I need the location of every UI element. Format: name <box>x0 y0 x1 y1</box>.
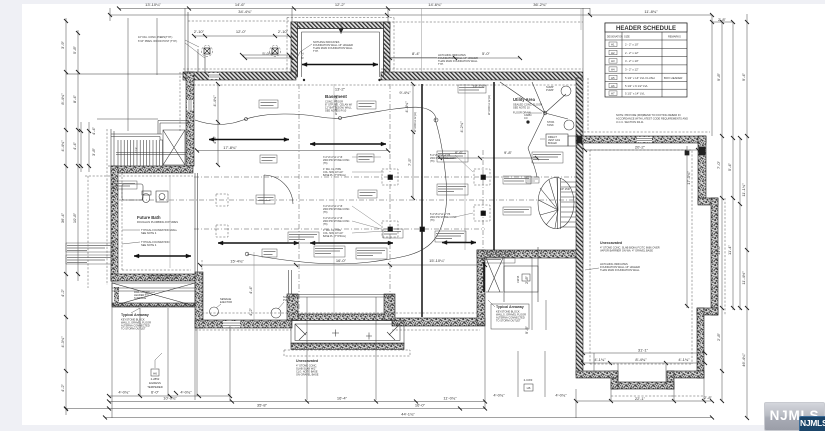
right dimension line mid2 <box>739 138 741 310</box>
interior dim vertical x254 <box>253 252 255 321</box>
wall: main top wall, right of bump <box>381 72 583 80</box>
leader: future bath notes <box>122 230 140 244</box>
beam line vertical x390 <box>389 84 391 317</box>
svg-text:THAN MAIN FOUNDATION WALL: THAN MAIN FOUNDATION WALL <box>438 59 478 63</box>
wall: step down from future bath <box>195 272 203 328</box>
wall: bay stub left <box>287 294 298 320</box>
right dimension line inner <box>721 22 723 401</box>
svg-text:4'-4": 4'-4" <box>72 141 77 150</box>
bump corner dots <box>303 79 305 81</box>
wavy service line <box>195 107 436 124</box>
porch post 2 <box>272 48 278 54</box>
svg-text:8'-4": 8'-4" <box>72 94 77 103</box>
svg-text:6'-0": 6'-0" <box>151 390 160 395</box>
svg-text:H6: H6 <box>153 372 157 376</box>
svg-text:H6: H6 <box>611 84 615 88</box>
right areaway X shape <box>486 258 503 292</box>
svg-text:10'-0¾": 10'-0¾" <box>163 396 177 401</box>
header schedule table <box>605 23 687 97</box>
interior vertical dim x530 <box>531 258 533 330</box>
svg-text:4'-4": 4'-4" <box>91 126 96 135</box>
svg-text:4'-1¾": 4'-1¾" <box>678 357 690 362</box>
top right short dim <box>712 21 733 23</box>
deck dashed outline top-right <box>388 21 583 23</box>
future bath interior dim line <box>169 175 171 268</box>
window extension lines below areaway <box>518 351 545 397</box>
svg-text:4'-2": 4'-2" <box>248 307 253 316</box>
svg-text:11'-0": 11'-0" <box>716 244 721 254</box>
left dimension line inner <box>77 30 79 281</box>
svg-text:4'-0¾": 4'-0¾" <box>118 390 130 395</box>
deck dashed outline top-left porch <box>188 20 289 22</box>
svg-text:7'-5": 7'-5" <box>407 157 412 166</box>
curved stair radials <box>539 178 559 228</box>
footing dashed inside right wing <box>590 150 692 364</box>
svg-text:5 1/2" x 14" LVL FLUSH: 5 1/2" x 14" LVL FLUSH <box>625 76 655 80</box>
carbon monoxide dot <box>527 121 530 124</box>
svg-text:36'-2¾": 36'-2¾" <box>533 2 547 7</box>
footing dashed below bottom wall <box>195 330 480 356</box>
svg-text:U.C.C. SECTION R4-11: U.C.C. SECTION R4-11 <box>616 120 644 124</box>
table header row <box>605 39 687 41</box>
wall: right wing right wall upper <box>698 136 706 204</box>
wall: right wing bottom right <box>667 371 704 378</box>
stair bay left thin wall <box>113 131 115 166</box>
svg-text:BOILER: BOILER <box>548 142 557 145</box>
boiler box <box>546 134 568 146</box>
svg-text:DESIGNATION: DESIGNATION <box>607 36 623 39</box>
sump pump circle <box>561 86 571 96</box>
bottom dim line 3 <box>105 417 712 419</box>
svg-text:(T6): (T6) <box>430 160 435 163</box>
bump second inner line <box>302 32 380 77</box>
svg-text:PUMP: PUMP <box>546 88 554 92</box>
svg-text:5 1/2" x 14" LVL: 5 1/2" x 14" LVL <box>625 92 645 96</box>
window gap in top wall <box>209 73 219 79</box>
wall: right wing step in <box>697 308 718 315</box>
leader: rail guard <box>145 292 155 294</box>
wall: main right wall shared with right wing <box>576 78 583 375</box>
svg-text:3 - 2" x 10": 3 - 2" x 10" <box>625 59 639 63</box>
stair bay top thin wall <box>111 129 163 166</box>
svg-text:14'-6¾": 14'-6¾" <box>428 2 442 7</box>
svg-text:9'-8": 9'-8" <box>716 72 721 81</box>
svg-text:5 1/2" x 9 1/2" LVL: 5 1/2" x 9 1/2" LVL <box>625 84 648 88</box>
svg-text:2-CW3: 2-CW3 <box>524 378 533 382</box>
svg-text:31'-1": 31'-1" <box>638 348 649 353</box>
column lines above bay stub <box>289 270 292 294</box>
interior dim vertical wing <box>686 146 688 308</box>
wall: bay window sill wall <box>292 314 392 321</box>
interior dim line wing bottom 2 <box>583 362 705 364</box>
svg-text:15'-10¼": 15'-10¼" <box>429 258 445 263</box>
svg-text:BOX HEADER: BOX HEADER <box>664 76 682 80</box>
svg-text:46'-4¼": 46'-4¼" <box>741 353 746 367</box>
svg-text:H3: H3 <box>611 59 615 63</box>
svg-text:CW15: CW15 <box>516 275 520 283</box>
top dimension line 1 <box>119 8 590 10</box>
interior dim line wing top <box>585 149 698 151</box>
svg-text:4'-0¾": 4'-0¾" <box>493 393 505 398</box>
bathtub <box>122 184 143 200</box>
bay window thin wall <box>292 295 392 298</box>
bottom extension lines <box>111 281 113 418</box>
page margin strips <box>0 0 22 431</box>
right areaway divider <box>503 258 505 302</box>
interior dim line y150 <box>197 150 388 152</box>
beam arrow A3 <box>134 255 191 257</box>
svg-text:15'-4¾": 15'-4¾" <box>230 259 244 264</box>
svg-text:10'-8": 10'-8" <box>72 212 77 223</box>
wavy line node circles <box>339 117 342 120</box>
svg-text:20'-2": 20'-2" <box>635 145 646 150</box>
svg-text:13'-2": 13'-2" <box>335 87 346 92</box>
wall: main bottom wall left segment <box>195 320 292 328</box>
svg-text:6'-6": 6'-6" <box>455 150 464 155</box>
wall: top stoop bump, top <box>291 22 390 29</box>
leader: hatch note top center <box>296 44 312 60</box>
svg-text:7'-0": 7'-0" <box>716 160 721 169</box>
toilet <box>142 194 150 203</box>
bottom dim line 1 <box>109 401 485 403</box>
svg-text:8'-4": 8'-4" <box>412 51 421 56</box>
svg-text:22'-1": 22'-1" <box>635 396 646 401</box>
svg-text:4'-4": 4'-4" <box>248 285 253 294</box>
beam arrow A6 <box>310 242 393 244</box>
leader: sewage ejector <box>216 302 284 309</box>
svg-text:2 - 2" x 12": 2 - 2" x 12" <box>625 51 639 55</box>
wall: bottom areaway hatched sill <box>291 343 404 350</box>
svg-text:4'-3¾": 4'-3¾" <box>60 336 65 348</box>
svg-text:(T6): (T6) <box>323 162 328 165</box>
svg-text:10" DIA. CONC. PIERS(TYP.): 10" DIA. CONC. PIERS(TYP.) <box>138 35 172 39</box>
svg-text:TO STORM OUTLET: TO STORM OUTLET <box>496 319 521 323</box>
wall: main left wall <box>186 72 194 166</box>
footing dashed outside left wall <box>107 72 180 285</box>
svg-text:6"x6" PRES. WOOD POST (TYP.): 6"x6" PRES. WOOD POST (TYP.) <box>138 39 177 43</box>
svg-text:2 - 2" x 10": 2 - 2" x 10" <box>625 43 639 47</box>
leader: areaway label left <box>131 308 140 313</box>
svg-text:13'-10¼": 13'-10¼" <box>145 2 161 7</box>
left dim extension x157 <box>156 18 158 75</box>
svg-text:THAN MAIN FOUNDATION WALL: THAN MAIN FOUNDATION WALL <box>600 268 640 272</box>
porch left edge line <box>187 12 189 74</box>
footing dashed outside right wing <box>576 132 725 396</box>
right areaway floor rect <box>504 266 538 292</box>
svg-text:THAN MAIN FOUNDATION WALL: THAN MAIN FOUNDATION WALL <box>313 46 353 50</box>
svg-text:4'-0¾": 4'-0¾" <box>180 390 192 395</box>
left wall top extension line <box>66 73 184 75</box>
svg-text:ROUGH-IN PLUMBING FIXTURES: ROUGH-IN PLUMBING FIXTURES <box>137 220 178 224</box>
svg-text:4'-4¾": 4'-4¾" <box>60 140 65 152</box>
wall: right edge of center bottom section <box>477 250 485 325</box>
footing dashed inside top wall <box>190 84 576 86</box>
svg-text:ACCORDANCE WITH LATEST CODE RE: ACCORDANCE WITH LATEST CODE REQUIREMENTS… <box>616 117 688 121</box>
wall: future bath left wall <box>111 166 118 281</box>
svg-text:(T6): (T6) <box>323 223 328 226</box>
footing dashed left of future bath <box>87 176 89 288</box>
right areaway right line <box>537 247 539 302</box>
wall: right wing bottom lower <box>611 382 674 389</box>
svg-text:2'-8": 2'-8" <box>716 332 721 341</box>
svg-text:16'-0": 16'-0" <box>336 258 347 263</box>
left areaway X brace <box>112 283 195 306</box>
big sweeping drain arc <box>247 119 447 264</box>
footing dashed below bay bottom wall <box>85 175 193 177</box>
svg-text:16'-0": 16'-0" <box>415 403 426 408</box>
porch dim line between posts <box>194 35 289 37</box>
right dimension line mid <box>732 138 734 310</box>
footing dashed outside bump <box>287 18 394 73</box>
sewage ejector circle <box>210 307 219 316</box>
interior vertical dim x546 <box>545 300 547 330</box>
left areaway rails <box>112 288 195 291</box>
svg-text:Unexcavated: Unexcavated <box>600 241 622 245</box>
svg-text:8'-4¾": 8'-4¾" <box>60 93 65 105</box>
dimension tick marks <box>117 7 390 11</box>
svg-text:9'-8": 9'-8" <box>504 150 513 155</box>
wall: bay stub right <box>384 294 395 320</box>
beam arrow A4 <box>442 242 476 244</box>
wall: right wing right wall middle <box>711 198 718 315</box>
leader: floor drain <box>528 112 542 114</box>
table title box <box>605 23 687 32</box>
svg-text:Unexcavated: Unexcavated <box>296 359 318 363</box>
svg-text:H7: H7 <box>611 92 615 96</box>
bottom areaway drain cross <box>332 330 372 340</box>
wall: main bottom wall right segment <box>392 318 485 326</box>
stair bay left extension lines <box>81 122 89 172</box>
bottom extension x176 <box>197 326 230 401</box>
porch post 1 <box>204 48 210 54</box>
beam line horizontal y200 <box>119 199 576 201</box>
svg-text:TYP.: TYP. <box>313 49 319 53</box>
svg-text:35'-8": 35'-8" <box>257 403 268 408</box>
leader: boiler <box>540 138 545 140</box>
svg-text:REMARKS: REMARKS <box>668 35 681 39</box>
future bath right partition <box>195 173 198 274</box>
leader: hatch note top right <box>390 57 437 59</box>
svg-text:12'-2": 12'-2" <box>335 2 346 7</box>
wing bottom extension lines <box>594 353 666 385</box>
stoop arrow <box>302 64 378 66</box>
svg-text:SURFACE: SURFACE <box>134 296 147 300</box>
svg-text:Typical Areaway: Typical Areaway <box>121 313 149 317</box>
svg-text:5'-0": 5'-0" <box>482 51 491 56</box>
leader: unexcavated wing hatch note <box>585 268 599 270</box>
wall: future bath bottom wall <box>111 274 202 281</box>
interior dim line bottom center <box>200 264 485 266</box>
svg-text:11'-8¾": 11'-8¾" <box>644 9 658 14</box>
wall: right wing bottom left <box>576 371 618 378</box>
wall: left areaway bottom hatched <box>112 303 195 307</box>
svg-text:SIZE: SIZE <box>624 35 630 39</box>
top dimension line 2 <box>110 14 712 16</box>
beam line horizontal y229 <box>194 228 485 230</box>
thin column line x334 <box>333 84 335 317</box>
svg-text:9'-8": 9'-8" <box>524 325 529 334</box>
curve in utility to stair <box>528 148 537 177</box>
svg-text:Typical Areaway: Typical Areaway <box>496 305 524 309</box>
future bath door swing <box>264 175 293 204</box>
svg-text:4'-2": 4'-2" <box>60 383 65 392</box>
svg-text:2'-10": 2'-10" <box>194 29 205 34</box>
interior dim line top <box>245 57 520 59</box>
wall: right wing bottom step left <box>611 371 618 389</box>
leader: egress <box>155 353 162 368</box>
beam arrow A2 <box>310 143 386 145</box>
top extension lines <box>109 8 111 21</box>
row designation boxes <box>609 42 617 95</box>
stack leader lines <box>352 155 473 233</box>
floor drain mark <box>543 111 547 115</box>
svg-text:W 4.600 A 12 (H): W 4.600 A 12 (H) <box>413 112 417 132</box>
NJMLS gray watermark button <box>764 402 825 431</box>
left dimension line outer <box>65 18 67 409</box>
wall: main top wall, left of bump <box>183 72 296 80</box>
porch post drop line <box>198 49 205 72</box>
footing dashed inside bottom section <box>202 260 477 313</box>
svg-text:11'-0¾": 11'-0¾" <box>443 396 457 401</box>
curved stair straight treads <box>558 178 577 229</box>
sump pump circle bottom <box>271 308 281 318</box>
pier dashed circles at porch posts <box>202 46 213 57</box>
table column lines <box>622 32 662 97</box>
svg-text:11'-4": 11'-4" <box>727 244 732 254</box>
left dim extension x128 <box>127 18 129 131</box>
beam line vertical x483 <box>482 150 484 250</box>
svg-text:16'-4": 16'-4" <box>337 396 348 401</box>
wall: top stoop bump, right <box>384 22 391 77</box>
svg-text:W 4.600 A 12 (H): W 4.600 A 12 (H) <box>334 95 338 115</box>
wall: top stoop bump, left <box>291 22 298 77</box>
beam line vertical x299 <box>298 84 300 320</box>
svg-text:9'-4¾": 9'-4¾" <box>399 90 411 95</box>
bottom dim line right <box>576 400 712 402</box>
beam arrow A1 <box>209 139 289 141</box>
svg-text:4'-1¾": 4'-1¾" <box>594 357 606 362</box>
left mini dim line y119 <box>97 118 158 120</box>
svg-text:4'-4¾": 4'-4¾" <box>212 95 217 107</box>
footing dashed above top wall <box>183 68 583 70</box>
svg-text:34'-4¾": 34'-4¾" <box>238 9 252 14</box>
svg-text:3'-8": 3'-8" <box>91 147 96 156</box>
svg-text:4'-0¾": 4'-0¾" <box>555 393 567 398</box>
svg-text:17'-8¾": 17'-8¾" <box>223 145 237 150</box>
svg-text:HEADER SCHEDULE: HEADER SCHEDULE <box>616 26 676 32</box>
svg-text:2'-8": 2'-8" <box>718 17 727 22</box>
window gap in wing top wall <box>637 137 652 142</box>
svg-text:(T6): (T6) <box>323 211 328 214</box>
bottom areaway corner braces <box>295 324 400 340</box>
dim vertical x465 <box>464 84 466 250</box>
svg-text:4'-2¾": 4'-2¾" <box>459 121 464 133</box>
svg-text:H1: H1 <box>611 43 615 47</box>
steel beam line x494 <box>493 82 495 250</box>
porch secondary dim line <box>242 54 289 56</box>
svg-text:SEE NOTE 10: SEE NOTE 10 <box>513 106 530 110</box>
leader: piers note to posts <box>185 40 205 58</box>
wall: bottom wall of stair bay right <box>477 250 583 258</box>
svg-text:5'-8": 5'-8" <box>72 45 77 54</box>
right dimension line outer <box>746 14 748 418</box>
svg-text:2'-8": 2'-8" <box>524 275 529 284</box>
footing dashed inside future bath <box>122 173 191 270</box>
svg-text:BASE PL. (TYPICAL): BASE PL. (TYPICAL) <box>323 174 346 177</box>
svg-text:4'-2": 4'-2" <box>60 288 65 297</box>
svg-text:H2: H2 <box>611 51 615 55</box>
beam arrow A5 <box>218 242 299 244</box>
NJMLS navy logo <box>799 416 825 431</box>
stair treads <box>118 140 163 166</box>
svg-text:12'-0": 12'-0" <box>236 29 247 34</box>
egress window thin lines <box>148 276 178 279</box>
column plates <box>388 175 393 180</box>
svg-text:TO STORM OUTLET: TO STORM OUTLET <box>121 327 146 331</box>
svg-text:11'-1¾": 11'-1¾" <box>741 183 746 197</box>
svg-text:3'-9": 3'-9" <box>60 40 65 49</box>
svg-text:PUMP: PUMP <box>283 298 291 302</box>
table row lines <box>605 48 687 89</box>
bottom dim line 2 <box>66 408 485 410</box>
wall: right wing step out <box>698 198 718 205</box>
svg-text:36'-4": 36'-4" <box>60 212 65 223</box>
svg-text:TANK: TANK <box>547 123 554 127</box>
svg-text:TYP.: TYP. <box>438 62 444 66</box>
svg-text:14'-6": 14'-6" <box>235 2 246 7</box>
window gap in bottom wall <box>223 321 240 328</box>
svg-text:5'-4": 5'-4" <box>727 162 732 171</box>
svg-text:9'-4": 9'-4" <box>741 72 746 81</box>
interior vertical dim x218 <box>217 84 219 165</box>
window gap in left wall <box>187 100 193 110</box>
leader: areaway label right <box>488 300 495 307</box>
stair handrail <box>116 153 186 155</box>
svg-text:ON GRAVEL BASE: ON GRAVEL BASE <box>296 373 319 377</box>
steel beam line x422 <box>421 84 423 317</box>
footing dashed outside right wall <box>587 78 589 132</box>
svg-text:EJECTOR: EJECTOR <box>220 300 232 304</box>
svg-text:3 - 2" x 12": 3 - 2" x 12" <box>625 68 639 72</box>
svg-text:H6: H6 <box>527 386 531 390</box>
lavatory <box>156 191 168 202</box>
svg-text:2'-8": 2'-8" <box>704 395 713 400</box>
svg-text:W 4.600 A 12 (H): W 4.600 A 12 (H) <box>487 95 491 115</box>
left areaway left wall hatch <box>114 287 119 305</box>
bottom areaway box <box>291 321 404 345</box>
bump center marker <box>339 29 344 34</box>
beam line horizontal y177 <box>194 176 576 178</box>
svg-text:H4: H4 <box>611 68 615 72</box>
bump inner face <box>298 29 384 78</box>
footing label boxes with tiny text <box>259 100 278 108</box>
svg-text:(T6): (T6) <box>430 219 435 222</box>
wall: right wing top wall <box>576 136 706 143</box>
svg-text:8'-4¾": 8'-4¾" <box>635 357 647 362</box>
interior dim line wing bottom <box>583 352 705 354</box>
svg-text:Utility Area: Utility Area <box>513 97 536 102</box>
utility diagonals <box>500 82 568 148</box>
svg-text:TEMPERED: TEMPERED <box>147 385 163 389</box>
right areaway window dark line <box>483 262 485 292</box>
svg-text:17'-0¾": 17'-0¾" <box>686 171 691 185</box>
step wall above stairs <box>158 121 189 135</box>
stair shaft box with X <box>163 130 185 165</box>
storage tank circle <box>564 120 574 130</box>
svg-text:VAPOR BARRIER ON WA. 4" GRAVEL: VAPOR BARRIER ON WA. 4" GRAVEL BASE <box>600 249 653 253</box>
box around right areaway label <box>491 304 529 329</box>
beam extension to dim <box>422 9 582 73</box>
